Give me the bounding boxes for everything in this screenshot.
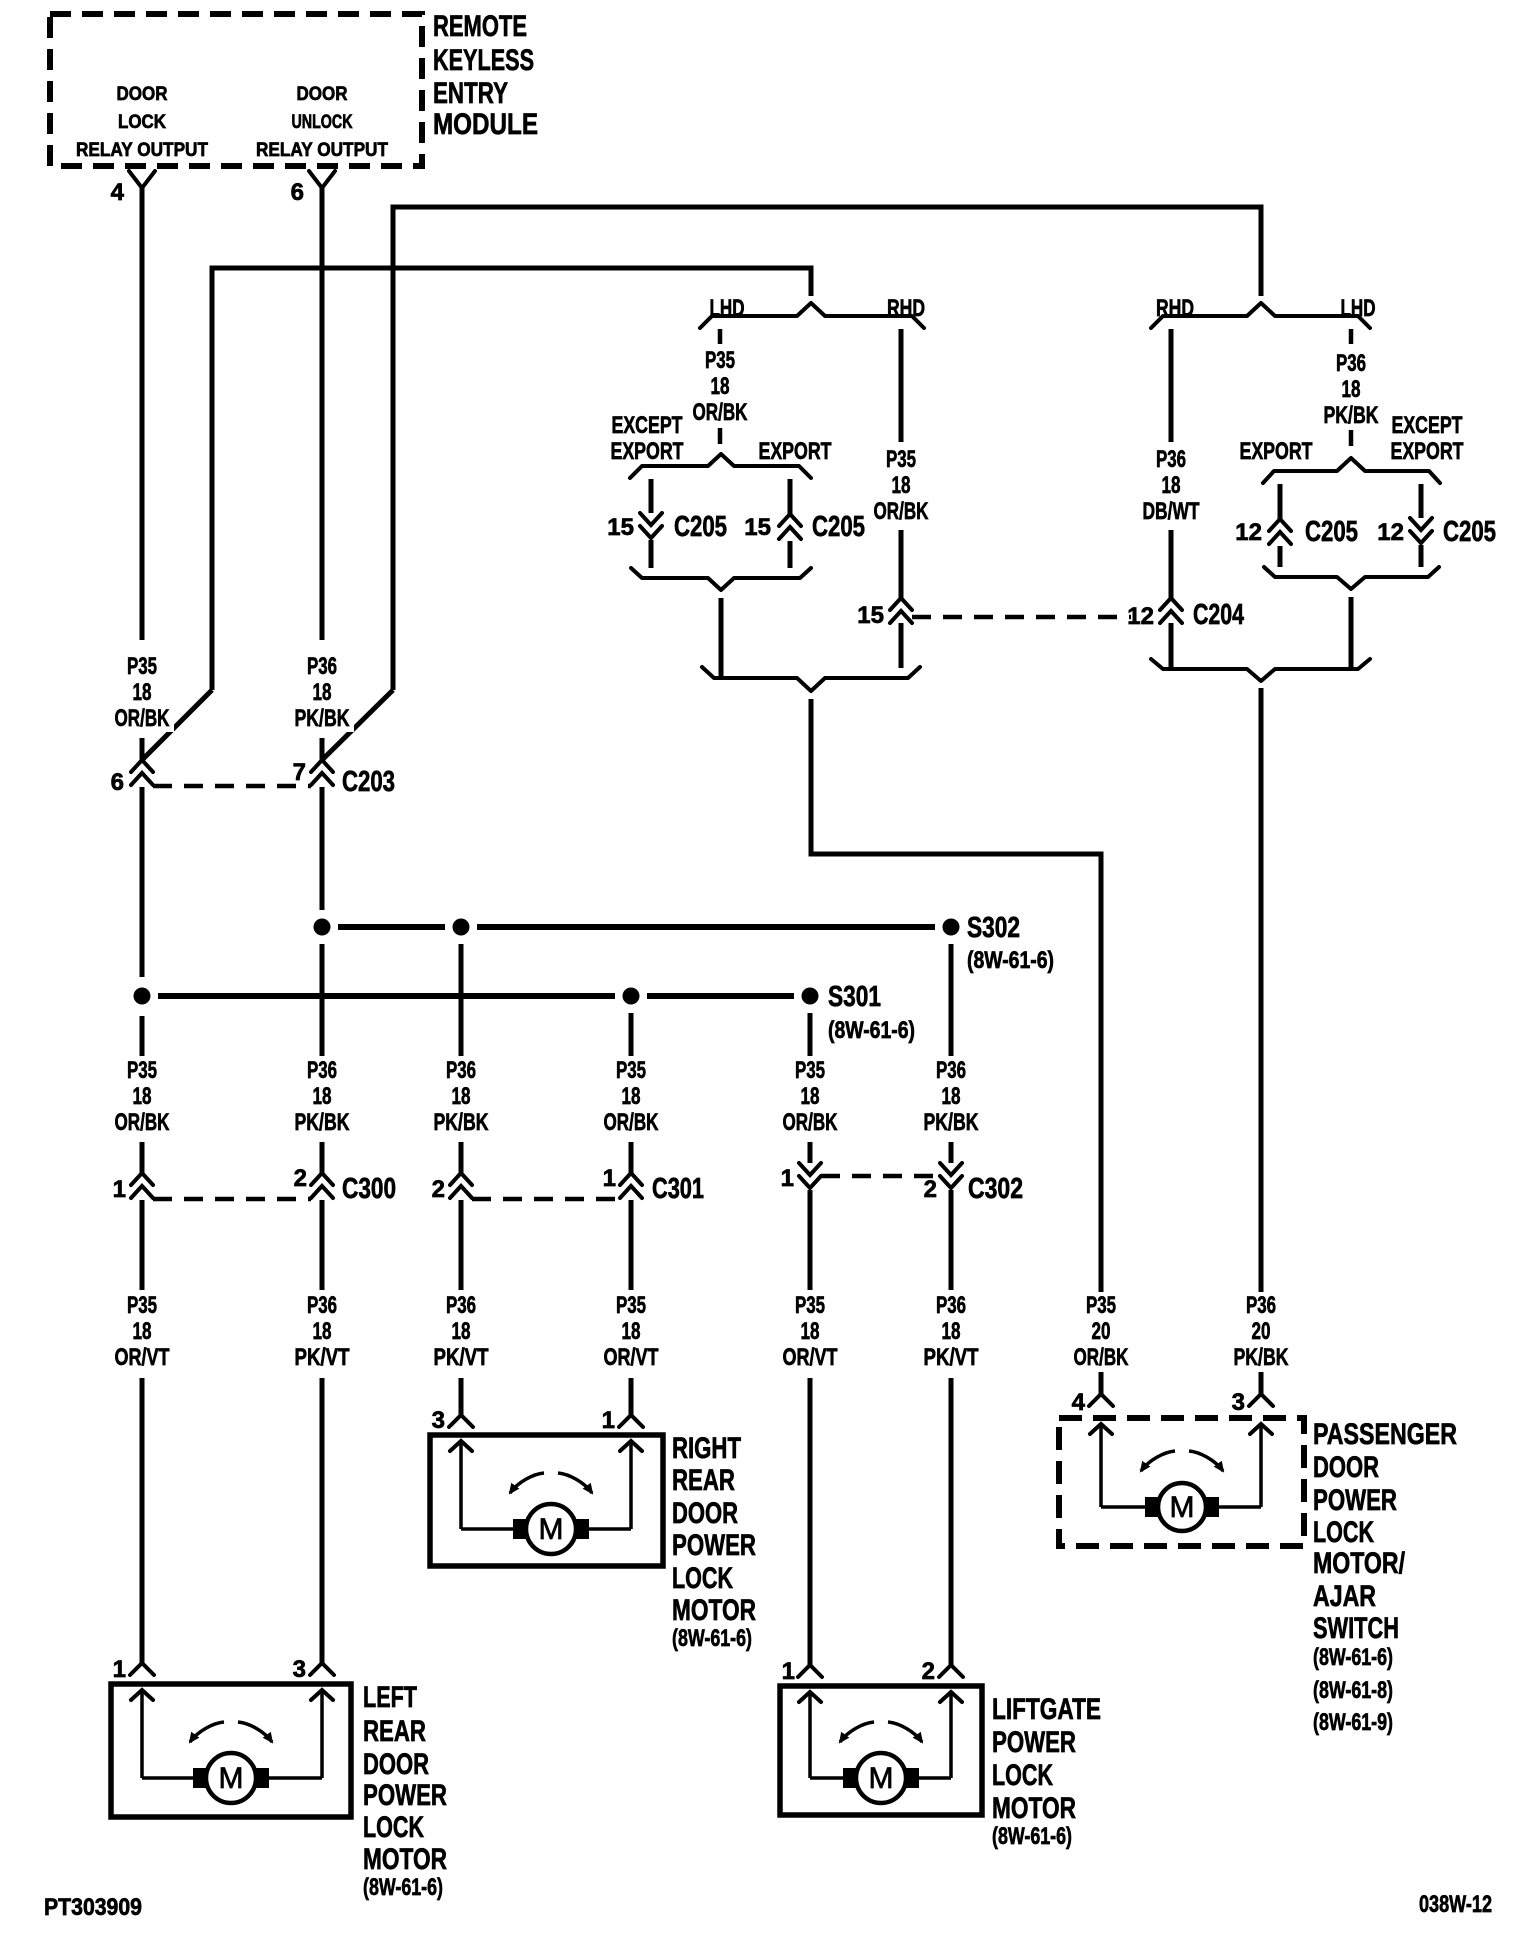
pin 3 of passenger door motor (1232, 1389, 1273, 1507)
svg-text:LEFT: LEFT (363, 1681, 417, 1714)
connector C205 pin 12 (export) (1235, 516, 1358, 548)
wire: dashed stub to EXPORT brace (right group) (1349, 430, 1354, 446)
svg-text:P35: P35 (127, 653, 157, 680)
svg-text:PK/BK: PK/BK (1324, 402, 1379, 429)
option brace: LHD / RHD split (left group) (700, 295, 925, 328)
svg-text:15: 15 (744, 514, 771, 541)
svg-text:PK/BK: PK/BK (295, 1109, 350, 1136)
pin 6 of module (291, 171, 335, 206)
wire label P36 18 PK/VT (290, 1292, 354, 1371)
wire: C300 pin 2 down to left rear door lock motor pin 3 (320, 1200, 325, 1663)
svg-text:DOOR: DOOR (672, 1497, 738, 1530)
svg-text:C203: C203 (342, 766, 395, 798)
svg-text:MOTOR: MOTOR (363, 1843, 447, 1876)
svg-text:2: 2 (922, 1658, 935, 1685)
svg-text:M: M (869, 1762, 894, 1795)
wire: C203 pin 7 down through splice S302 to connector C300 pin 2 (320, 787, 325, 1173)
wire label P36 18 DB/WT (1139, 446, 1203, 525)
motor symbol: passenger door power lock motor (1101, 1451, 1261, 1531)
svg-text:MOTOR/: MOTOR/ (1313, 1547, 1406, 1580)
svg-text:DOOR: DOOR (363, 1748, 429, 1781)
svg-text:EXPORT: EXPORT (759, 438, 832, 465)
svg-text:EXCEPT: EXCEPT (612, 412, 683, 439)
svg-text:POWER: POWER (363, 1779, 447, 1812)
module label: door lock relay output (76, 84, 208, 161)
svg-text:4: 4 (1072, 1389, 1086, 1416)
svg-text:OR/BK: OR/BK (783, 1109, 838, 1136)
svg-text:C205: C205 (1443, 516, 1496, 548)
wire: LHD dashed stub into option group (718, 329, 723, 344)
svg-text:P36: P36 (936, 1057, 966, 1084)
svg-text:OR/VT: OR/VT (115, 1344, 170, 1371)
svg-text:DB/WT: DB/WT (1143, 498, 1200, 525)
svg-text:UNLOCK: UNLOCK (292, 112, 353, 133)
wire label P36 20 PK/BK (1229, 1292, 1293, 1371)
motor box: passenger door power lock motor / ajar switch (dashed) (1059, 1418, 1304, 1546)
svg-text:EXPORT: EXPORT (1240, 438, 1313, 465)
svg-text:P36: P36 (936, 1292, 966, 1319)
svg-text:LHD: LHD (710, 295, 745, 322)
svg-text:(8W-61-8): (8W-61-8) (1313, 1677, 1393, 1704)
connector C302 dashed link (821, 1174, 940, 1179)
wire: P35 18 OR/BK from module pin 4 down to connector C203 pin 6 (140, 188, 145, 760)
motor symbol: liftgate power lock motor (810, 1722, 951, 1803)
svg-text:(8W-61-6): (8W-61-6) (1313, 1644, 1393, 1671)
svg-text:P36: P36 (307, 1057, 337, 1084)
svg-text:C205: C205 (674, 511, 727, 543)
svg-text:18: 18 (1162, 472, 1181, 499)
wire label P36 18 PK/VT (429, 1292, 493, 1371)
pin 2 of liftgate motor (922, 1658, 963, 1778)
wire label P35 18 OR/VT (110, 1292, 174, 1371)
svg-text:18: 18 (313, 1318, 332, 1345)
svg-text:PK/BK: PK/BK (295, 705, 350, 732)
wire label P36 18 PK/BK (919, 1057, 983, 1136)
connector C300 pin 2 (294, 1165, 333, 1198)
svg-text:P35: P35 (616, 1057, 646, 1084)
wire: splice S301 branch down to connector C301 pin 1 (629, 1013, 634, 1173)
pin 1 of left rear door motor (113, 1656, 154, 1778)
wire: C300 pin 1 down to left rear door lock motor pin 1 (140, 1200, 145, 1663)
svg-text:18: 18 (313, 1083, 332, 1110)
svg-text:EXCEPT: EXCEPT (1392, 412, 1463, 439)
wire label P36 18 PK/BK (290, 653, 354, 732)
svg-text:P35: P35 (127, 1292, 157, 1319)
svg-text:C205: C205 (1305, 516, 1358, 548)
svg-text:ENTRY: ENTRY (433, 77, 508, 110)
wire label P36 18 PK/VT (919, 1292, 983, 1371)
motor box: liftgate power lock motor (780, 1686, 982, 1815)
svg-text:P35: P35 (795, 1292, 825, 1319)
svg-text:DOOR: DOOR (1313, 1451, 1379, 1484)
svg-text:OR/BK: OR/BK (604, 1109, 659, 1136)
svg-text:(8W-61-6): (8W-61-6) (967, 947, 1054, 974)
wire: merged LHD branch down (right group) (1349, 597, 1354, 668)
svg-text:S302: S302 (967, 912, 1020, 944)
svg-text:OR/BK: OR/BK (874, 498, 929, 525)
merge brace: export/except-export rejoin (right group) (1264, 567, 1439, 589)
wire: dashed stub to EXPORT brace (718, 428, 723, 444)
svg-text:MOTOR: MOTOR (672, 1594, 756, 1627)
svg-text:P36: P36 (1246, 1292, 1276, 1319)
pin 3 of right rear door motor (432, 1407, 473, 1529)
wire: pin 6 output branch, runs right along y=207 then down to RHD/LHD brace (right group) (393, 207, 1261, 690)
svg-text:OR/VT: OR/VT (783, 1344, 838, 1371)
svg-text:18: 18 (313, 679, 332, 706)
wire: except-export branch (right group) (1419, 484, 1424, 567)
svg-text:RELAY OUTPUT: RELAY OUTPUT (256, 140, 388, 161)
wire: merged LHD branch down (719, 598, 724, 676)
label: PASSENGER DOOR POWER LOCK MOTOR / AJAR SWITCH (1313, 1418, 1457, 1736)
wire: RHD branch (left group) (899, 329, 904, 668)
svg-text:15: 15 (607, 514, 634, 541)
connector C301 pin 1 (603, 1165, 642, 1198)
svg-text:MODULE: MODULE (433, 108, 538, 141)
svg-text:C205: C205 (812, 511, 865, 543)
pin 3 of left rear door motor (293, 1656, 334, 1778)
svg-text:AJAR: AJAR (1313, 1580, 1376, 1613)
svg-text:PK/VT: PK/VT (434, 1344, 489, 1371)
svg-text:P36: P36 (446, 1292, 476, 1319)
svg-text:4: 4 (111, 179, 125, 206)
wire: LHD dashed stub (right group) (1349, 329, 1354, 344)
connector C205 pin 15 (except export) (607, 511, 727, 543)
svg-text:18: 18 (622, 1318, 641, 1345)
svg-text:P36: P36 (1336, 350, 1366, 377)
svg-text:RHD: RHD (887, 295, 925, 322)
svg-text:20: 20 (1092, 1318, 1111, 1345)
wire: C301 pin 2 down to right rear door lock motor pin 3 (459, 1200, 464, 1415)
svg-text:P36: P36 (446, 1057, 476, 1084)
connector C302 pin 1 (781, 1163, 821, 1192)
wire: export branch (right group) (1278, 484, 1283, 567)
svg-text:OR/BK: OR/BK (1074, 1344, 1129, 1371)
wire: C302 pin 1 down to liftgate lock motor pin 1 (808, 1190, 813, 1665)
svg-text:C301: C301 (652, 1173, 704, 1205)
svg-text:S301: S301 (828, 981, 881, 1013)
svg-text:(8W-61-9): (8W-61-9) (1313, 1709, 1393, 1736)
option brace: EXCEPT EXPORT / EXPORT split (611, 412, 832, 478)
svg-text:REAR: REAR (363, 1715, 426, 1748)
svg-text:7: 7 (293, 759, 306, 786)
motor symbol: right rear door power lock motor (461, 1473, 631, 1554)
connector C205 pin 12 (except export) (1377, 516, 1496, 548)
module label: door unlock relay output (256, 84, 388, 161)
svg-text:18: 18 (133, 1083, 152, 1110)
svg-text:(8W-61-6): (8W-61-6) (363, 1874, 443, 1901)
svg-text:P35: P35 (795, 1057, 825, 1084)
svg-text:12: 12 (1235, 519, 1262, 546)
svg-text:P35: P35 (886, 446, 916, 473)
svg-text:2: 2 (432, 1176, 445, 1203)
svg-text:OR/BK: OR/BK (693, 399, 748, 426)
connector C301 pin 2 (432, 1173, 472, 1203)
option brace: RHD / LHD split (right group) (1151, 295, 1376, 328)
svg-text:3: 3 (432, 1407, 445, 1434)
wire: merged output down, right along y=854, down to passenger door pin 4 (811, 699, 1101, 1394)
wire label P36 18 PK/BK (290, 1057, 354, 1136)
svg-text:LOCK: LOCK (992, 1759, 1053, 1792)
svg-text:PASSENGER: PASSENGER (1313, 1418, 1457, 1451)
svg-text:1: 1 (603, 1165, 616, 1192)
svg-text:2: 2 (924, 1176, 937, 1203)
svg-text:6: 6 (291, 179, 304, 206)
connector C302 pin 2 (924, 1163, 962, 1203)
pin 4 of module (111, 171, 155, 206)
svg-text:PK/VT: PK/VT (295, 1344, 350, 1371)
svg-text:PK/BK: PK/BK (924, 1109, 979, 1136)
svg-text:EXPORT: EXPORT (611, 438, 684, 465)
motor box: right rear door power lock motor (430, 1435, 663, 1566)
svg-text:18: 18 (452, 1083, 471, 1110)
svg-text:20: 20 (1252, 1318, 1271, 1345)
connector C203 pin 6 (111, 760, 153, 796)
svg-text:038W-12: 038W-12 (1419, 1891, 1492, 1918)
svg-text:LOCK: LOCK (1313, 1516, 1374, 1549)
svg-text:1: 1 (782, 1658, 795, 1685)
wire label P35 18 OR/BK (599, 1057, 663, 1136)
svg-text:EXPORT: EXPORT (1391, 438, 1464, 465)
svg-text:(8W-61-6): (8W-61-6) (828, 1017, 915, 1044)
wire: splice S301 down to connector C300 pin 1 (140, 1142, 145, 1173)
wire label P35 18 OR/BK (778, 1057, 842, 1136)
svg-text:OR/BK: OR/BK (115, 705, 170, 732)
connector C300 pin 1 (113, 1173, 153, 1203)
merge brace: RHD/LHD rejoin (right group) (1151, 659, 1370, 681)
svg-text:M: M (539, 1513, 564, 1546)
wire: splice S302 down to connector C302 pin 2 (949, 944, 954, 1163)
wire: P36 18 PK/BK from module pin 6 down to connector C203 pin 7 (320, 188, 325, 760)
svg-text:P36: P36 (1156, 446, 1186, 473)
wire label P35 18 OR/VT (778, 1292, 842, 1371)
wire label P35 18 OR/BK (RHD) (869, 446, 933, 525)
svg-text:PT303909: PT303909 (44, 1894, 142, 1921)
svg-text:12: 12 (1377, 519, 1404, 546)
merge brace: except-export/export rejoin (631, 568, 811, 590)
svg-text:LIFTGATE: LIFTGATE (992, 1693, 1101, 1726)
connector C205 pin 15 (export) (744, 511, 865, 543)
svg-text:OR/VT: OR/VT (604, 1344, 659, 1371)
connector C203 pin 7 (293, 759, 333, 786)
svg-text:18: 18 (133, 1318, 152, 1345)
label: LEFT REAR DOOR POWER LOCK MOTOR (363, 1681, 447, 1901)
svg-text:1: 1 (781, 1165, 794, 1192)
svg-text:18: 18 (133, 679, 152, 706)
wire: pin 4 output branch, runs right along y=268 then down to LHD/RHD brace (left group) (212, 268, 811, 690)
svg-text:3: 3 (1232, 1389, 1245, 1416)
svg-text:18: 18 (622, 1083, 641, 1110)
wire label P35 18 OR/VT (599, 1292, 663, 1371)
wire: C203 pin 6 down to splice S301 (140, 787, 145, 1056)
svg-text:P35: P35 (1086, 1292, 1116, 1319)
connector C205 pin 15 on RHD branch (857, 598, 912, 629)
svg-text:6: 6 (111, 769, 124, 796)
merge brace: LHD/RHD rejoin (left group) (702, 667, 920, 691)
svg-text:KEYLESS: KEYLESS (433, 44, 534, 77)
svg-text:REAR: REAR (672, 1464, 735, 1497)
wire: diagonal into C203 pin 6 (142, 690, 212, 760)
wire: diagonal into C203 pin 7 (322, 690, 393, 760)
svg-text:P35: P35 (127, 1057, 157, 1084)
connector C301 dashed link (472, 1197, 620, 1202)
svg-text:DOOR: DOOR (297, 84, 348, 105)
splice S302 node (314, 912, 1055, 974)
svg-text:C302: C302 (968, 1173, 1023, 1205)
svg-text:M: M (219, 1762, 244, 1795)
svg-text:DOOR: DOOR (117, 84, 168, 105)
svg-text:(8W-61-6): (8W-61-6) (672, 1625, 752, 1652)
label: LIFTGATE POWER LOCK MOTOR (992, 1693, 1101, 1850)
svg-text:POWER: POWER (672, 1529, 756, 1562)
svg-text:LOCK: LOCK (672, 1562, 733, 1595)
wire: C301 pin 1 down to right rear door lock motor pin 1 (629, 1200, 634, 1415)
svg-text:M: M (1170, 1491, 1195, 1524)
svg-text:RIGHT: RIGHT (672, 1432, 741, 1465)
svg-text:C300: C300 (342, 1173, 396, 1205)
svg-text:C204: C204 (1193, 599, 1244, 631)
svg-text:18: 18 (711, 373, 730, 400)
svg-text:OR/BK: OR/BK (115, 1109, 170, 1136)
wire label P35 18 OR/BK (110, 653, 174, 732)
svg-text:POWER: POWER (992, 1726, 1076, 1759)
svg-text:2: 2 (294, 1165, 307, 1192)
wire: RHD branch (right group) (1169, 329, 1174, 668)
svg-text:RHD: RHD (1156, 295, 1194, 322)
wire label P35 18 OR/BK (LHD) (688, 347, 752, 426)
splice S301 node (134, 981, 916, 1044)
wire: merged output down to passenger door pin 3 (1259, 688, 1264, 1394)
pin 1 of right rear door motor (602, 1407, 643, 1529)
svg-text:P35: P35 (616, 1292, 646, 1319)
module: remote keyless entry module (dashed box) (50, 14, 422, 166)
wire label P36 18 PK/BK (429, 1057, 493, 1136)
svg-text:REMOTE: REMOTE (433, 10, 527, 43)
wire: export branch (788, 479, 793, 568)
svg-text:18: 18 (801, 1083, 820, 1110)
svg-text:RELAY OUTPUT: RELAY OUTPUT (76, 140, 208, 161)
svg-text:PK/BK: PK/BK (434, 1109, 489, 1136)
connector C300 dashed link (153, 1197, 311, 1202)
svg-text:12: 12 (1127, 603, 1154, 630)
svg-text:18: 18 (801, 1318, 820, 1345)
svg-text:18: 18 (452, 1318, 471, 1345)
svg-text:SWITCH: SWITCH (1313, 1612, 1399, 1645)
svg-text:P36: P36 (307, 1292, 337, 1319)
pin 4 of passenger door motor (1072, 1389, 1113, 1507)
svg-text:LOCK: LOCK (118, 112, 166, 133)
svg-text:P36: P36 (307, 653, 337, 680)
svg-text:15: 15 (857, 602, 884, 629)
svg-text:18: 18 (942, 1318, 961, 1345)
wire label P36 18 PK/BK (LHD) (1319, 350, 1383, 429)
motor box: left rear door power lock motor (111, 1684, 351, 1817)
module title: REMOTE KEYLESS ENTRY MODULE (433, 10, 538, 141)
svg-text:LOCK: LOCK (363, 1811, 424, 1844)
svg-text:18: 18 (942, 1083, 961, 1110)
svg-text:PK/VT: PK/VT (924, 1344, 979, 1371)
wire: splice S302 branch down to connector C301 pin 2 (459, 944, 464, 1173)
connector C204 pin 12 (1127, 598, 1244, 631)
svg-text:POWER: POWER (1313, 1484, 1397, 1517)
svg-text:1: 1 (113, 1656, 126, 1683)
svg-text:1: 1 (602, 1407, 615, 1434)
option brace: EXPORT / EXCEPT EXPORT split (right group) (1240, 412, 1464, 483)
motor symbol: left rear door power lock motor (142, 1722, 322, 1803)
svg-text:3: 3 (293, 1656, 306, 1683)
label: RIGHT REAR DOOR POWER LOCK MOTOR (672, 1432, 756, 1652)
svg-text:18: 18 (892, 472, 911, 499)
svg-text:LHD: LHD (1341, 295, 1376, 322)
svg-text:MOTOR: MOTOR (992, 1792, 1076, 1825)
connector C203 dashed link (153, 784, 311, 789)
wire: C302 pin 2 down to liftgate lock motor pin 2 (949, 1190, 954, 1665)
wire: except-export branch (649, 479, 654, 568)
svg-text:(8W-61-6): (8W-61-6) (992, 1823, 1072, 1850)
wire: splice S301 down to connector C302 pin 1 (808, 1013, 813, 1163)
wire label P35 18 OR/BK (110, 1057, 174, 1136)
svg-text:PK/BK: PK/BK (1234, 1344, 1289, 1371)
pin 1 of liftgate motor (782, 1658, 822, 1778)
svg-text:1: 1 (113, 1176, 126, 1203)
svg-text:18: 18 (1342, 376, 1361, 403)
svg-text:P35: P35 (705, 347, 735, 374)
connector C204 dashed link to C205 RHD (912, 615, 1131, 620)
wire label P35 20 OR/BK (1069, 1292, 1133, 1371)
